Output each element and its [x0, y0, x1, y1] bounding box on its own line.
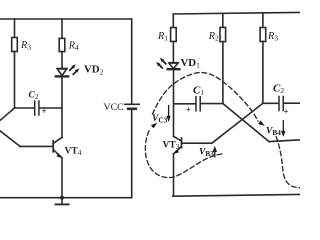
wire: R3(right) top stub	[262, 13, 264, 28]
svg-text:R4: R4	[68, 40, 79, 52]
arrowhead of dashed arc at VB4	[258, 120, 265, 125]
svg-text:C1: C1	[193, 85, 204, 98]
svg-text:+: +	[284, 107, 289, 117]
capacitor C1 right wire	[201, 103, 223, 105]
wire: R2 top stub	[222, 13, 224, 27]
wire: R3 bottom to C2 node	[14, 52, 16, 109]
wire: VT3 emitter down to bottom rail	[173, 154, 175, 196]
wire: VCC branch lower segment	[131, 110, 133, 198]
resistor R2	[220, 27, 226, 41]
LED VD2	[56, 68, 68, 76]
svg-text:C2: C2	[273, 82, 284, 95]
wire: cross diagonal from C1 node to VT4 base line	[223, 104, 269, 142]
wire: R3 top stub	[14, 19, 16, 38]
LED VD1	[168, 63, 180, 70]
svg-text:VT4: VT4	[65, 146, 82, 157]
wire: R2 bottom to C1 node	[222, 42, 224, 104]
wire: R3(right) bottom to C2 node	[262, 42, 264, 104]
LED VD1 illumination arrows	[156, 58, 166, 68]
arrowhead of dashed loop at VC3	[151, 123, 157, 128]
capacitor C1 plates	[196, 97, 200, 111]
capacitor C2 (left circuit) left wire	[15, 107, 35, 109]
wire: VT4 base wire	[20, 145, 53, 147]
capacitor C2 (left circuit) right wire	[40, 107, 63, 109]
wire: VD1 to VT3 collector	[173, 70, 175, 137]
wire: VT3 base wire	[182, 142, 212, 144]
wire: R1 top corner	[172, 14, 174, 28]
wire: right circuit top rail	[173, 12, 300, 14]
wire: cross diagonal from C2 node to VT3 base corner	[212, 103, 263, 143]
wire: R4 top stub	[61, 19, 63, 38]
dashed arc from VC3 over the top to VB4 arrow	[153, 73, 259, 121]
resistor R1	[171, 28, 177, 42]
svg-text:VD2: VD2	[84, 64, 104, 77]
LED VD2 emission arrows	[70, 64, 80, 74]
svg-text:VT3: VT3	[163, 141, 180, 152]
svg-text:VD1: VD1	[181, 57, 201, 70]
wire: R4 bottom to LED VD2	[61, 52, 63, 69]
wire: VCC branch upper segment	[131, 19, 133, 103]
wire: left circuit top rail	[0, 18, 132, 20]
svg-text:R3: R3	[20, 40, 31, 52]
svg-text:VB4: VB4	[266, 127, 281, 138]
wire: left circuit bottom rail	[0, 197, 132, 199]
arrow down at VB4	[281, 120, 285, 137]
ground	[56, 198, 69, 205]
svg-text:+: +	[186, 105, 191, 115]
resistor R3	[12, 38, 18, 52]
capacitor C2 (right circuit) right wire	[284, 102, 300, 104]
capacitor C2 (right circuit) left wire	[263, 102, 279, 104]
dashed loop from VB3 around VT3 to VC3 arrow	[145, 129, 221, 178]
svg-text:R1: R1	[157, 31, 168, 43]
wire: VT4 emitter down	[61, 158, 63, 198]
battery VCC long plate	[125, 103, 139, 105]
svg-text:+: +	[42, 106, 47, 116]
wire: diagonal from left edge to VT4 base wire	[0, 131, 20, 147]
resistor R4	[59, 38, 65, 51]
capacitor C2 (right circuit) plates	[279, 97, 283, 111]
svg-text:VCC: VCC	[104, 102, 124, 113]
junction dot at emitter/ground	[60, 196, 64, 200]
wire: diagonal from C2 node to left edge	[0, 108, 15, 121]
wire: right circuit bottom rail	[173, 194, 300, 196]
capacitor C2 (left circuit) plates	[35, 101, 39, 115]
svg-text:VB3: VB3	[199, 147, 214, 158]
wire: R1 bottom to LED VD1	[172, 42, 174, 63]
arrow up at VB3	[213, 146, 217, 158]
wire: horizontal to right edge (VT4 base, cropped)	[269, 140, 300, 142]
svg-text:C2: C2	[29, 91, 39, 102]
battery VCC short thick plate	[128, 108, 136, 111]
transistor VT4	[53, 137, 62, 158]
capacitor C1 left wire	[174, 103, 196, 105]
wire: VD2 to VT4 collector	[61, 77, 63, 138]
svg-text:R2: R2	[208, 31, 219, 43]
svg-text:VC3: VC3	[152, 114, 168, 125]
transistor VT3	[173, 136, 181, 154]
arrow down at VC3	[166, 105, 170, 122]
svg-text:R3: R3	[267, 31, 278, 43]
resistor R3 (right circuit)	[260, 28, 266, 42]
dashed curve from VB4 down to right edge	[276, 137, 300, 188]
